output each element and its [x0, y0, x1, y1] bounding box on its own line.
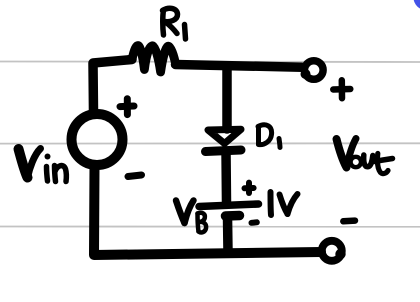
polarity - (Vout)	[343, 217, 355, 224]
battery VB plate +	[199, 204, 259, 207]
battery VB plate -	[226, 211, 240, 221]
wire: junction drop to diode	[222, 66, 232, 129]
label VB	[176, 201, 206, 233]
wire: diode to battery	[221, 151, 231, 203]
wire: Vin bottom to bottom rail	[94, 167, 321, 256]
polarity + (Vin)	[120, 99, 134, 115]
polarity + (Vout)	[333, 80, 350, 98]
label R1	[163, 8, 186, 39]
polarity - (Vin)	[128, 175, 142, 177]
label Vin	[19, 149, 67, 182]
wire: Vin top to resistor	[93, 60, 132, 113]
diode D1	[206, 129, 242, 151]
UI corner dot	[414, 0, 420, 10]
wire: battery to bottom rail	[223, 217, 233, 252]
ruled lines (background)	[0, 62, 420, 227]
polarity - (VB)	[252, 219, 257, 226]
wire: top rail to output terminal	[176, 65, 303, 68]
polarity + (VB)	[245, 183, 254, 193]
terminal - output	[322, 241, 346, 261]
terminal + output	[301, 61, 324, 80]
resistor R1	[132, 46, 176, 73]
label D1	[258, 125, 280, 148]
voltage source Vin	[72, 114, 123, 165]
label Vout	[337, 139, 393, 174]
label 1V (battery value)	[271, 192, 298, 215]
